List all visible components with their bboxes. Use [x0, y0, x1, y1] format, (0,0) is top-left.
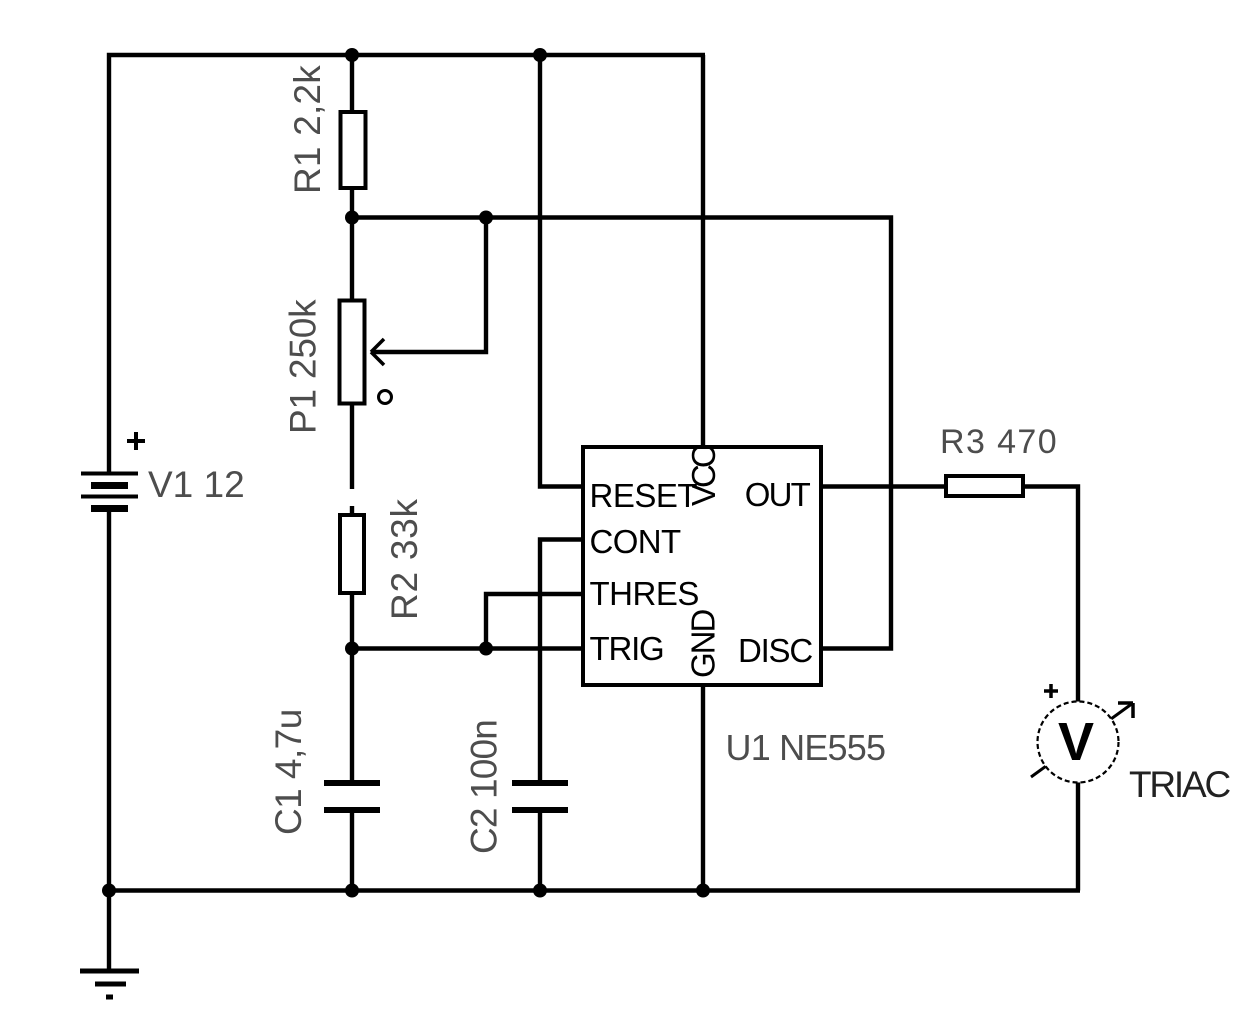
svg-text:R3 470: R3 470	[940, 423, 1058, 461]
svg-text:V: V	[1058, 712, 1094, 772]
svg-text:C2 100n: C2 100n	[464, 720, 505, 854]
svg-text:C1 4,7u: C1 4,7u	[268, 709, 309, 835]
svg-text:V1 12: V1 12	[148, 464, 245, 505]
svg-text:R1 2,2k: R1 2,2k	[287, 65, 328, 194]
svg-text:U1 NE555: U1 NE555	[726, 727, 886, 768]
svg-text:P1 250k: P1 250k	[283, 299, 324, 434]
svg-text:TRIAC: TRIAC	[1129, 764, 1230, 805]
svg-text:VCC: VCC	[685, 445, 722, 506]
svg-text:TRIG: TRIG	[590, 630, 664, 667]
svg-text:CONT: CONT	[590, 523, 682, 560]
svg-text:R2 33k: R2 33k	[384, 498, 425, 620]
svg-text:THRES: THRES	[590, 575, 699, 612]
svg-text:GND: GND	[685, 610, 722, 679]
svg-text:DISC: DISC	[738, 632, 812, 669]
svg-text:RESET: RESET	[590, 477, 698, 514]
svg-text:OUT: OUT	[745, 476, 811, 513]
